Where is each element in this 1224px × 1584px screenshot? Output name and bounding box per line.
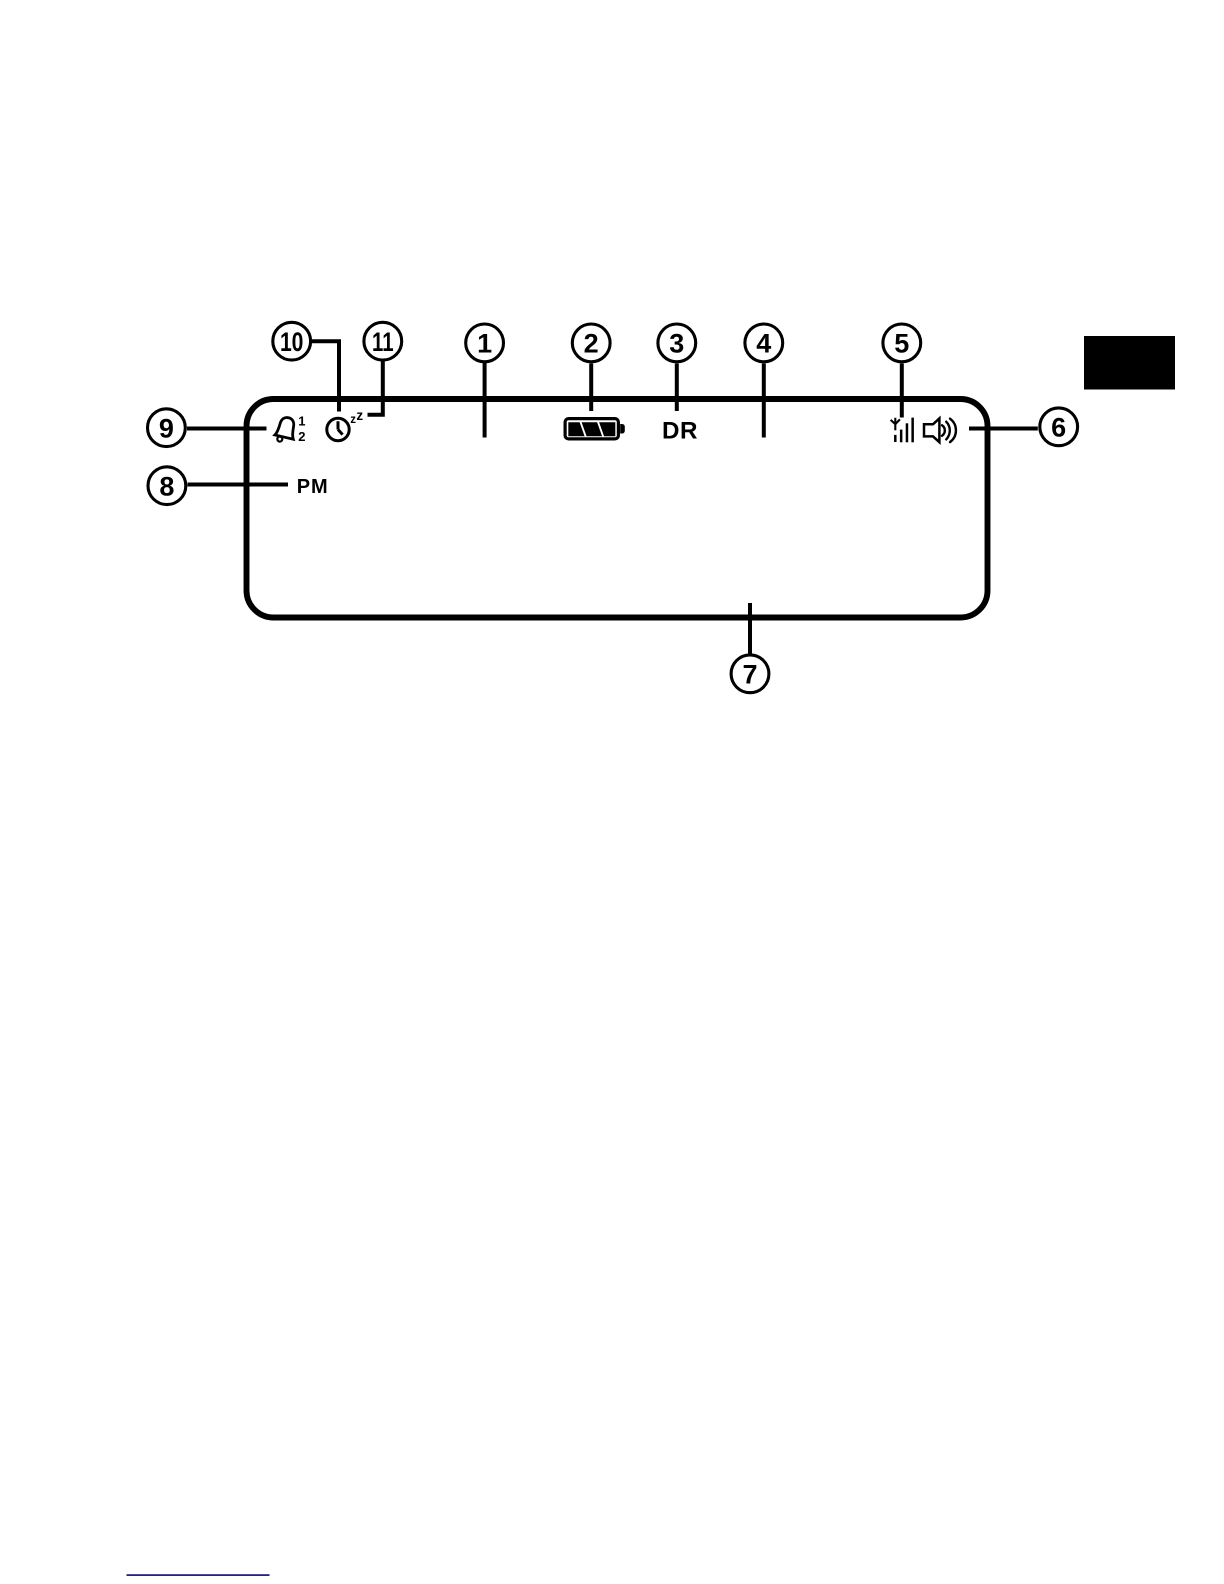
callout circle 6 [1040,408,1078,446]
sleep clock icon with zz [327,408,364,440]
leader line 8 [188,483,289,487]
svg-text:5: 5 [894,329,909,359]
callout circle 5 [883,324,921,362]
leader line 11 [368,361,383,415]
leader line 1 [483,363,487,438]
callout circle 11 [364,322,402,360]
PM indicator [297,476,329,498]
svg-text:6: 6 [1051,413,1066,443]
svg-text:2: 2 [298,429,305,444]
leader line 2 [589,364,593,412]
svg-text:11: 11 [372,327,394,357]
speaker volume icon [924,418,956,442]
footer link underline [127,1574,270,1576]
callout circle 2 [572,324,610,362]
leader line 4 [762,364,766,438]
svg-text:4: 4 [756,329,771,359]
callout circle 8 [148,467,186,505]
callout circle 7 [731,655,769,693]
svg-text:1: 1 [298,413,305,428]
black tab marker top right [1084,336,1175,390]
leader line 7 [748,603,752,654]
battery icon [565,419,625,439]
svg-text:2: 2 [584,329,599,359]
callout circle 3 [658,324,696,362]
leader line 9 [187,427,267,431]
DR label [662,417,698,444]
svg-text:PM: PM [297,476,329,498]
svg-text:z: z [356,408,363,423]
callout circle 1 [466,324,504,362]
alarm bell icon with 1 2 [274,413,306,444]
leader line 3 [675,364,679,412]
callout circle 10 [273,322,311,360]
svg-text:1: 1 [477,329,492,359]
svg-text:10: 10 [280,327,304,357]
svg-text:z: z [350,414,356,426]
signal antenna icon [891,418,914,443]
svg-text:8: 8 [159,472,174,502]
leader line 6 [969,427,1038,431]
leader line 10 [311,341,340,411]
leader line 5 [900,364,904,418]
display outline [247,399,988,618]
svg-text:3: 3 [669,329,684,359]
svg-text:DR: DR [662,417,698,444]
callout circle 9 [148,409,186,447]
svg-text:9: 9 [159,414,174,444]
svg-text:7: 7 [742,660,757,690]
callout circle 4 [745,324,783,362]
